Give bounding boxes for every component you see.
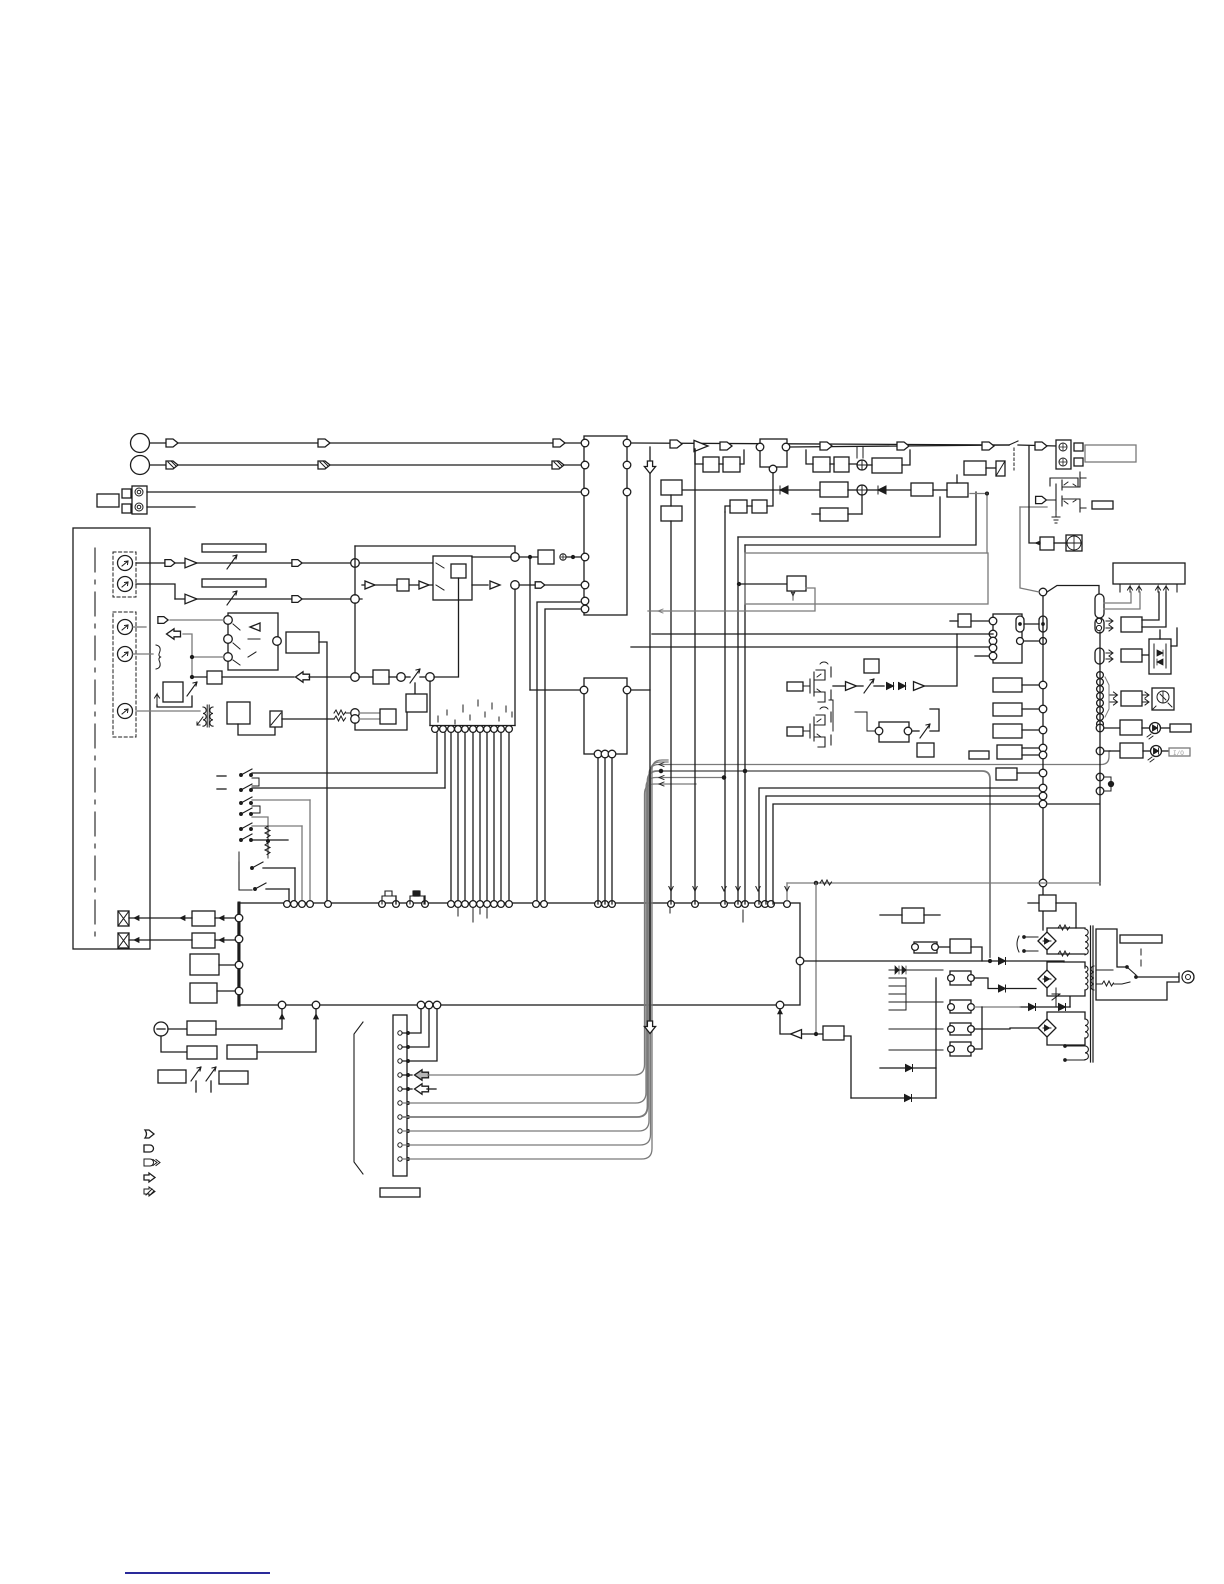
wire Q2 to Q1 <box>829 700 833 731</box>
box B15 <box>187 1046 217 1059</box>
transformer T1 primary <box>203 707 206 726</box>
speaker box gray <box>1085 445 1136 462</box>
wire from IC y961 <box>804 961 1064 962</box>
amp A4 <box>419 581 429 589</box>
wire B58 right down <box>844 1036 851 1098</box>
wire B14 to IC pin282 <box>216 1009 282 1029</box>
box B17 <box>158 1070 186 1083</box>
wire G2 down <box>161 1036 187 1052</box>
U5 bottom pins <box>594 750 602 758</box>
legend arrow 1 <box>145 1130 154 1138</box>
wire diodes y686 <box>874 685 884 687</box>
dashed group box jacks CH2 <box>113 612 136 737</box>
led LED2 <box>1151 746 1162 757</box>
arrowhead y611 <box>658 609 663 613</box>
junction dot x530 <box>529 556 532 559</box>
wire CN2 pin1 to IC <box>402 1009 421 1033</box>
oval dots <box>1019 623 1021 625</box>
wire B50 outputs <box>1142 592 1159 620</box>
coil4 stubs <box>1065 1046 1085 1060</box>
left vertical for S7 S8 <box>239 862 252 890</box>
junction dots x192 <box>191 656 194 659</box>
transistor K2 symbol <box>1050 472 1086 512</box>
wire row3 mid <box>848 489 857 491</box>
wire B34 loop <box>648 588 815 611</box>
arrow tag ch1 b <box>292 560 302 567</box>
wire N4 down to rail <box>514 589 516 726</box>
resistor R3 <box>334 710 346 715</box>
wire x310 to IC <box>309 800 311 904</box>
gray vert x1020 <box>1020 507 1039 592</box>
wire B38 left loop <box>855 712 875 731</box>
wire N8 N9 to box B9 <box>359 712 380 714</box>
node U2 pin2 <box>224 635 233 644</box>
switch S7 <box>251 867 254 870</box>
wire jack CH2C to T1 <box>136 710 200 712</box>
box B10 <box>192 911 215 926</box>
dash mark 1 <box>217 775 226 777</box>
diode D6 <box>906 1065 913 1072</box>
resistor R8 <box>1058 925 1070 930</box>
switch block SW1 <box>433 556 472 600</box>
box B14 <box>187 1021 216 1035</box>
wire N7 down to rail <box>429 681 431 726</box>
box B13 <box>190 983 217 1003</box>
wire x289 to IC <box>288 889 290 904</box>
box B1 left of CN1 <box>97 494 119 507</box>
diode D7 on y961 <box>999 958 1006 965</box>
tick marks inside IC below pins <box>458 908 743 922</box>
column boxes B45 <box>997 745 1022 759</box>
arrow up mark <box>155 694 160 705</box>
P1 left pins <box>989 617 997 625</box>
double diodes input <box>895 966 899 974</box>
wire CN2 pin6 bus <box>402 778 724 1104</box>
mixer M2 <box>857 485 867 495</box>
psu inner wires <box>1097 970 1113 984</box>
box B53 <box>1121 691 1142 706</box>
ground circle G2 <box>154 1022 168 1036</box>
stub jack CH2A <box>133 626 146 628</box>
switch S3 <box>240 802 243 805</box>
node x1100 791 <box>1096 787 1104 795</box>
junction dot x573 <box>572 556 575 559</box>
wire B12 to IC <box>219 964 235 966</box>
small box B36 <box>787 727 803 736</box>
wire y634 to P1 <box>989 633 993 635</box>
wire x302 to IC <box>301 826 303 904</box>
node input jack J1 <box>131 434 150 453</box>
box B5 <box>373 670 389 684</box>
wire S4 to resistors <box>252 817 268 826</box>
wire CN2 pin2 to IC <box>402 1009 429 1047</box>
wire B43 to x1043 <box>1022 708 1039 710</box>
wire U5 bottom to IC <box>597 758 599 904</box>
MOSFET Q1 <box>803 667 831 702</box>
box B18 <box>219 1071 248 1084</box>
AC plug <box>1182 971 1194 983</box>
box B7 <box>227 702 250 724</box>
wire vertical x355 546-599 <box>354 546 356 595</box>
block arrow CN2 pin4 <box>402 1074 412 1076</box>
zener Z1 <box>1052 988 1060 1007</box>
wire B28 down to IC <box>670 521 672 904</box>
oval OV3 <box>1095 594 1104 618</box>
wire x295 to IC <box>294 868 296 904</box>
diode D1 <box>780 486 788 494</box>
wire K2 ground <box>1047 500 1060 523</box>
slash box B33 <box>996 461 1005 476</box>
arrow tag line1 x903 <box>897 442 909 450</box>
psu resistor R10 <box>1102 981 1114 986</box>
box B3 <box>538 550 554 564</box>
box B50 <box>1121 617 1142 632</box>
wire line3 from CN1 <box>147 491 585 493</box>
IC right pin <box>796 957 804 965</box>
junction dot resistors <box>267 840 270 843</box>
wire B31 stubs <box>812 513 820 515</box>
wire B26-B27 <box>933 489 947 491</box>
motor box M3 <box>1152 688 1174 710</box>
short verticals below line1 <box>856 447 858 458</box>
wire corner y545 <box>745 492 976 545</box>
arrow tag line1 x1041 <box>1035 442 1047 450</box>
IC U1 top pins <box>284 901 291 908</box>
wire ch2 chain y585 <box>362 584 433 586</box>
wire SW1 out1 <box>472 584 488 586</box>
wire B24-B28 vertical <box>670 495 672 506</box>
transformer T2 core <box>1090 926 1092 1062</box>
left connector panel outline <box>73 528 150 949</box>
bridge BR3 <box>1038 1019 1056 1037</box>
amp A6 <box>694 440 708 451</box>
legend arrow 4 <box>144 1173 155 1182</box>
jack CH2 A <box>118 620 133 635</box>
psu label bar <box>1120 935 1162 943</box>
panel internal dash-dot divider <box>94 548 96 936</box>
transformer T1 secondary <box>210 707 213 726</box>
box inside SW1 <box>451 564 466 578</box>
amp A1 <box>185 558 197 568</box>
box B61 <box>950 939 971 953</box>
wire ovals <box>1024 623 1039 625</box>
node U2 pin1 <box>224 616 233 625</box>
oval OV4 <box>1095 618 1104 633</box>
box with circles B38 <box>879 722 909 742</box>
box B21 row2 <box>813 457 830 472</box>
resistor R6 <box>265 843 270 855</box>
node N8 <box>351 709 360 718</box>
junction dots CN2 wires <box>407 1032 410 1035</box>
column boxes B42 <box>993 678 1022 692</box>
box B24 row3 <box>661 480 682 495</box>
box with circles B60 <box>914 942 937 953</box>
long vertical bus x650 <box>649 447 651 1026</box>
wire A8 to x957 <box>925 634 957 686</box>
wire B66 stubs <box>880 914 902 916</box>
small box B35 <box>787 682 803 691</box>
arrow tag line1 x726 <box>720 442 732 450</box>
pushbutton SW above pin382 <box>382 891 396 904</box>
staircase S1-S2 <box>252 778 259 786</box>
wire row2 right <box>806 450 910 465</box>
U4 left pins <box>581 439 589 447</box>
wire B34 bottom arrow <box>792 591 794 600</box>
wire y1098 <box>851 1097 936 1099</box>
amp A8 <box>914 682 925 691</box>
arc bracket left of BR1 <box>1017 936 1019 952</box>
IC U1 left pins <box>235 914 243 922</box>
led LED1 <box>1150 723 1161 734</box>
wire B49 to FAN1 <box>1054 542 1066 544</box>
box B56 <box>1120 743 1143 758</box>
svg-text:I/O: I/O <box>1173 750 1184 757</box>
psu wire2 <box>1114 982 1130 984</box>
wire row3 y490 <box>682 489 820 491</box>
relay box K1 <box>270 711 282 727</box>
wire vertical x695 from line1 <box>694 449 696 904</box>
box B19 row2 <box>703 457 719 472</box>
node x1100 y751 <box>1096 747 1104 755</box>
legend arrow 5 <box>144 1187 155 1196</box>
double arrows OV4 <box>1106 618 1113 631</box>
label bar R1 <box>202 544 266 552</box>
switch matrix box U2 <box>228 613 278 670</box>
BR1 loop top <box>1047 928 1085 954</box>
box B2 small <box>397 579 409 591</box>
wire top line2 <box>150 464 585 466</box>
wire y804 from IC <box>773 804 1039 904</box>
switch S2 <box>240 789 243 792</box>
wire B11 to IC <box>215 939 235 941</box>
switch S4 <box>240 813 243 816</box>
double arrows to motor <box>1142 692 1149 705</box>
dashed group box jacks CH1 <box>113 552 136 597</box>
wire B51 to opto <box>1142 654 1149 656</box>
small rect under CN2 <box>380 1188 420 1197</box>
wire into B34 <box>739 583 787 585</box>
jack CH1 L <box>118 556 133 571</box>
pin stack x1100 <box>1097 672 1104 679</box>
box B9 <box>380 709 396 724</box>
fanin bracket <box>1105 677 1109 717</box>
hollow arrow top x650 <box>644 461 655 474</box>
wire x192 to U2 pin3 <box>192 656 224 658</box>
box B25 row3 <box>820 482 848 497</box>
wire V8 up <box>930 709 939 731</box>
connector CN1 top-left <box>132 486 147 514</box>
opto box B52 <box>1149 639 1171 674</box>
wire SW1 to N3 <box>472 556 511 558</box>
speaker terminal X2 <box>118 933 129 948</box>
BR1 input stubs <box>1024 937 1038 951</box>
CN2 pins <box>398 1031 402 1035</box>
box B29 row4 <box>730 500 747 513</box>
column boxes B44 <box>993 724 1022 738</box>
transformer T1 core <box>206 705 208 727</box>
T2 coil3 <box>1085 1019 1088 1038</box>
resistor R5 <box>265 826 270 838</box>
diode D5 <box>905 1095 912 1102</box>
wire B47 to x1043 <box>1017 772 1039 774</box>
staircase S3-S4 <box>252 806 260 813</box>
node N9 <box>351 715 360 724</box>
node U2 out <box>273 637 282 646</box>
wire OV3 outputs <box>1104 592 1131 603</box>
box B22 row2 <box>834 457 849 472</box>
wire vertical x725 from row4 <box>724 512 726 904</box>
wire IC pin780 net <box>780 1009 790 1034</box>
amp A3 <box>365 581 375 589</box>
wire B32 right <box>986 467 996 469</box>
arrow tag ch return <box>167 629 181 639</box>
wire N7 up to SW1 inner <box>434 578 459 677</box>
wire line1 down to B49 <box>1029 446 1040 543</box>
box B16 <box>227 1045 257 1059</box>
wire bottom y730 <box>355 712 407 730</box>
wire U3 to bus x327 <box>319 642 327 904</box>
small rect B40 <box>969 751 989 759</box>
node N6 <box>397 673 406 682</box>
wire B11 to X2 <box>129 939 192 941</box>
switch on line1 <box>1009 441 1018 445</box>
IC U1 bottom pins <box>278 1001 286 1009</box>
wire opto3 out <box>974 1028 1010 1030</box>
wire y804 right to x1099 <box>1047 803 1099 805</box>
bridge BR2 <box>1038 970 1056 988</box>
wire B44 to x1043 <box>1022 729 1039 731</box>
attenuator V1 <box>227 555 237 569</box>
T1 ground arrow <box>197 717 203 725</box>
wire B54-LED1 <box>1142 727 1149 729</box>
MOSFET Q2 <box>803 712 831 747</box>
wire N3 to box B3 <box>519 556 538 558</box>
wire B10 to IC <box>215 917 235 919</box>
wire opto4 out <box>974 1007 982 1049</box>
legend arrow 3 <box>144 1159 160 1166</box>
wire y592 to oval <box>1047 586 1099 595</box>
wire opto up <box>1160 628 1177 646</box>
wire y677 left segment <box>192 676 207 678</box>
arrowheads into IC pins <box>669 887 673 892</box>
arrow tags on line2 <box>166 461 178 469</box>
diode row y1007 <box>1020 1006 1070 1008</box>
U6 bottom pins <box>1128 586 1133 592</box>
gray horiz y507 <box>1020 506 1047 508</box>
wire B10 to X1 <box>129 917 192 919</box>
box B34 <box>787 576 806 591</box>
oval OV2 <box>1039 616 1047 632</box>
node N5 <box>351 673 360 682</box>
junction dots y771 <box>659 769 662 772</box>
wire ch2 line y599 <box>175 598 362 600</box>
wire N4 to blockB <box>519 584 581 586</box>
wire x1100 corner to x787 <box>787 882 1100 884</box>
component between <box>1104 777 1111 791</box>
box B6 <box>163 682 183 702</box>
psu right housing <box>1096 929 1179 1000</box>
box B48 right of K2 <box>1092 501 1113 509</box>
BR3 loop <box>1047 1012 1085 1045</box>
U4 right pins <box>623 439 631 447</box>
switch marks in U2 <box>233 624 260 665</box>
box B23 row2 <box>872 458 902 473</box>
box B47 <box>996 768 1017 780</box>
wire N5 to box B5 <box>359 676 373 678</box>
wire long y634 <box>652 633 989 635</box>
wire r3 line <box>333 713 335 719</box>
wire bundle pins to IC <box>450 733 452 904</box>
attenuator V5 <box>191 1067 201 1081</box>
tick marks above pin row <box>438 700 512 724</box>
bracket before CN2 <box>354 1022 363 1174</box>
arrowhead y764 <box>659 763 664 767</box>
resistor R4 <box>334 716 346 721</box>
oval OV1 <box>1016 616 1024 632</box>
wire G2 to B14 <box>168 1028 187 1030</box>
rect B55 <box>1170 724 1191 732</box>
arrow tag line1 x676 <box>670 440 682 448</box>
BR2 loop <box>1047 962 1085 1007</box>
dash mark 2 <box>217 788 226 790</box>
box B27 row3 <box>947 483 968 497</box>
node N2 <box>351 595 360 604</box>
attenuator V3 <box>410 669 420 683</box>
box B51 <box>1121 649 1142 662</box>
T2 secondary dense coil <box>1085 966 1088 990</box>
diode D8 <box>999 985 1006 992</box>
stub y656 <box>975 655 989 657</box>
box B28 row4 <box>661 506 682 521</box>
block arrow CN2 pin5 <box>402 1088 412 1090</box>
arrow tag into U2 pin1 <box>158 617 168 624</box>
wire U4 pin602 to IC <box>537 602 580 904</box>
wire x816 down <box>815 883 817 1034</box>
node pin row y729 <box>432 726 439 733</box>
speaker terminal X1 <box>118 911 129 926</box>
box B8 <box>406 694 427 712</box>
wire B13 to IC <box>217 990 235 992</box>
attenuator V2 <box>227 591 237 605</box>
oval OV5 <box>1095 648 1104 664</box>
box B58 <box>823 1026 844 1040</box>
arrow tags on line1 <box>166 439 178 447</box>
wire CN2 pin3 to IC <box>402 1009 437 1061</box>
arrow tag on y585 <box>535 582 545 588</box>
wire x787 vertical <box>786 883 788 900</box>
connector CN2 <box>393 1015 407 1176</box>
wire B59 stubs <box>1028 903 1076 928</box>
label bar R2 <box>202 579 266 587</box>
wire CN2 pin9 bus <box>402 762 668 1145</box>
mixer M1 <box>857 460 867 470</box>
node N3 <box>511 553 520 562</box>
wire <box>389 676 397 678</box>
T2 coil4 <box>1085 1046 1088 1060</box>
attenuator V6 <box>206 1067 216 1081</box>
blue footer line <box>126 1572 269 1574</box>
CN3 side squares <box>1074 443 1083 451</box>
wire x437 up to pin <box>436 733 438 773</box>
wire line1 x787-826 <box>790 445 1009 447</box>
junction dot x816 <box>814 881 817 884</box>
ground symbol G1 <box>560 554 566 560</box>
vertical pin column x1043 <box>1042 592 1044 930</box>
amp inside U2 <box>250 623 260 631</box>
box B26 row3 <box>911 483 933 496</box>
wire y788 from IC <box>759 788 1039 904</box>
node x1100 y728 <box>1096 724 1104 732</box>
